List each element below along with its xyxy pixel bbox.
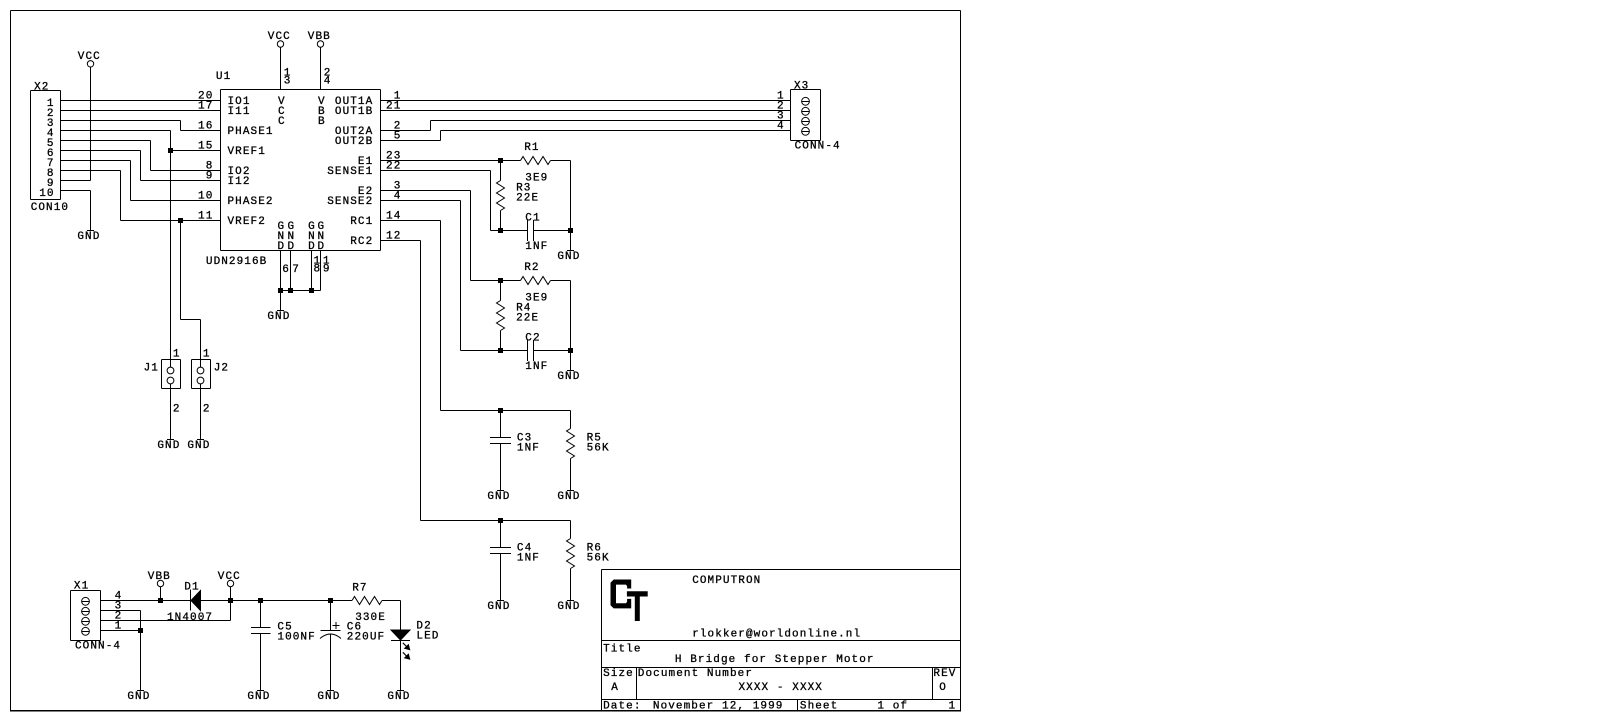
svg-text:VCC: VCC: [78, 51, 101, 63]
capacitor C3: [500, 411, 502, 438]
wire U1 OUT2B to X3.4: [381, 140, 441, 142]
svg-text:GND: GND: [557, 371, 580, 383]
svg-text:GND: GND: [557, 601, 580, 613]
connector X2 CON10: [31, 90, 61, 92]
resistor R2: [521, 277, 551, 285]
svg-text:9: 9: [323, 264, 331, 276]
svg-text:PHASE1: PHASE1: [228, 126, 274, 138]
svg-text:RC2: RC2: [350, 236, 373, 248]
wire X1.3 / X1.1 to GND: [101, 610, 141, 612]
resistor R3: [500, 161, 502, 181]
svg-text:17: 17: [198, 101, 213, 113]
wire U1 ground rail to GND: [280, 291, 282, 311]
svg-text:A: A: [611, 682, 619, 694]
svg-text:100NF: 100NF: [277, 632, 315, 644]
wire U1 RC2 down to C4/R6: [381, 240, 421, 242]
ground (C5): [257, 690, 264, 692]
svg-text:B: B: [318, 116, 326, 128]
svg-text:VCC: VCC: [218, 571, 241, 583]
node C5 junction: [258, 598, 263, 603]
svg-text:X2: X2: [34, 81, 49, 93]
svg-text:C: C: [278, 116, 286, 128]
wire D1 to VCC rail: [201, 600, 353, 602]
wire U1 E1 to R1: [381, 160, 521, 162]
node SENSE2 junction: [498, 348, 503, 353]
svg-text:22E: 22E: [516, 312, 539, 324]
svg-text:GND: GND: [267, 311, 290, 323]
wire to GND: [570, 351, 572, 371]
wire X2.10 to GND: [61, 190, 91, 192]
svg-text:1N4007: 1N4007: [167, 612, 213, 624]
svg-text:2: 2: [173, 404, 181, 416]
IC U1 UDN2916B body: [221, 89, 381, 91]
capacitor C4: [500, 521, 502, 548]
svg-text:15: 15: [198, 141, 213, 153]
svg-text:LED: LED: [416, 631, 439, 643]
svg-text:November 12, 1999: November 12, 1999: [653, 700, 784, 712]
node RC2 junction: [498, 518, 503, 523]
wire X1.4 VBB rail: [101, 600, 191, 602]
svg-text:2: 2: [203, 404, 211, 416]
ground (R6): [567, 600, 574, 602]
svg-text:VREF2: VREF2: [228, 216, 266, 228]
wire to GND: [570, 231, 572, 251]
wire D2 to GND: [400, 641, 402, 691]
svg-text:CON10: CON10: [31, 202, 69, 214]
ground (C3): [497, 490, 504, 492]
svg-text:11: 11: [198, 211, 213, 223]
border frame: [11, 10, 961, 12]
svg-text:GND: GND: [127, 691, 150, 703]
ground (below U1): [277, 310, 284, 312]
node C6 junction: [328, 598, 333, 603]
svg-text:COMPUTRON: COMPUTRON: [692, 575, 761, 587]
svg-text:1NF: 1NF: [525, 241, 548, 253]
svg-text:4: 4: [777, 121, 785, 133]
wire U1 OUT1B to X3.2: [381, 110, 791, 112]
jumper J2: [192, 359, 211, 361]
svg-text:56K: 56K: [587, 552, 610, 564]
node VCC junction: [228, 598, 233, 603]
ground (C6): [327, 690, 334, 692]
svg-text:I12: I12: [228, 176, 251, 188]
title block frame: [602, 569, 961, 571]
svg-text:SENSE1: SENSE1: [327, 166, 373, 178]
node C1 right junction: [568, 228, 573, 233]
svg-text:GND: GND: [157, 440, 180, 452]
wire U1 SENSE2 down: [381, 200, 461, 202]
svg-text:OUT2B: OUT2B: [335, 136, 373, 148]
wire X2.6 to U1 I12: [61, 150, 141, 152]
wire X2.1 to U1 IO1: [61, 100, 221, 102]
wire U1 E2 to R2: [381, 190, 471, 192]
svg-text:1: 1: [173, 349, 181, 361]
capacitor C6 (electrolytic): [330, 601, 332, 631]
svg-text:OUT1B: OUT1B: [335, 106, 373, 118]
svg-text:J1: J1: [144, 362, 159, 374]
ground (J2): [197, 439, 204, 441]
node X1 ground junction: [138, 628, 143, 633]
svg-text:UDN2916B: UDN2916B: [206, 256, 267, 268]
ground (R5): [567, 490, 574, 492]
wire U1 RC1 down to C3/R5: [381, 220, 441, 222]
svg-text:D: D: [288, 241, 296, 253]
wire R2 right to sense node: [551, 280, 571, 282]
resistor R4: [500, 281, 502, 301]
capacitor C2: [501, 350, 528, 352]
wire VCC to X2 pin 9: [90, 67, 92, 181]
svg-text:XXXX - XXXX: XXXX - XXXX: [739, 682, 824, 694]
node U1 ground rail junctions: [278, 288, 283, 293]
svg-text:10: 10: [198, 191, 213, 203]
svg-text:R2: R2: [524, 262, 539, 274]
resistor R7: [352, 597, 382, 605]
svg-text:GND: GND: [317, 691, 340, 703]
capacitor C5: [260, 601, 262, 628]
wire X2.3 to U1 PHASE1: [61, 120, 181, 122]
wire J1.2 to GND: [170, 384, 172, 440]
wire X1.2 to VCC node: [101, 620, 231, 622]
svg-text:Date:: Date:: [603, 700, 641, 712]
svg-text:Sheet: Sheet: [800, 700, 838, 712]
svg-text:1: 1: [203, 349, 211, 361]
node SENSE1 junction: [498, 228, 503, 233]
svg-text:J2: J2: [214, 362, 229, 374]
ground (R2/C2): [567, 370, 574, 372]
svg-text:16: 16: [198, 121, 213, 133]
node VREF1 junction: [168, 148, 173, 153]
wire U1 OUT2A to X3.3: [381, 130, 431, 132]
capacitor C1: [501, 230, 528, 232]
svg-text:GND: GND: [77, 231, 100, 243]
svg-text:1NF: 1NF: [517, 442, 540, 454]
svg-text:GND: GND: [487, 601, 510, 613]
svg-text:9: 9: [206, 171, 214, 183]
svg-text:220UF: 220UF: [347, 632, 385, 644]
svg-text:VBB: VBB: [148, 571, 171, 583]
ground (J1): [167, 439, 174, 441]
connector X1 CONN-4: [71, 590, 101, 592]
svg-text:1 of: 1 of: [877, 700, 908, 712]
node RC1 junction: [498, 408, 503, 413]
svg-text:GND: GND: [557, 251, 580, 263]
node C2 right junction: [568, 348, 573, 353]
LED D2: [391, 630, 410, 640]
svg-text:GND: GND: [487, 491, 510, 503]
connector X3 CONN-4: [791, 89, 821, 91]
wire X2.4 to U1 VREF1: [61, 130, 171, 132]
node VREF2 junction: [178, 218, 183, 223]
ground (D2): [397, 690, 404, 692]
svg-text:8: 8: [314, 264, 322, 276]
svg-text:Size: Size: [603, 668, 634, 680]
jumper J1: [162, 359, 181, 361]
node E2 junction: [498, 278, 503, 283]
svg-text:R7: R7: [352, 582, 367, 594]
svg-text:H Bridge for Stepper Motor: H Bridge for Stepper Motor: [675, 654, 875, 666]
svg-text:GND: GND: [247, 691, 270, 703]
wire J2.2 to GND: [200, 384, 202, 440]
svg-text:1NF: 1NF: [525, 361, 548, 373]
svg-text:7: 7: [292, 264, 300, 276]
svg-text:D: D: [278, 241, 286, 253]
svg-text:1: 1: [949, 700, 957, 712]
ground (R1/C1): [567, 250, 574, 252]
wire VREF1 node down to J1: [170, 151, 172, 368]
wire R7 to D2: [382, 600, 401, 602]
node E1 junction: [498, 158, 503, 163]
svg-text:3: 3: [284, 76, 292, 88]
svg-text:22E: 22E: [516, 192, 539, 204]
svg-text:rlokker@worldonline.nl: rlokker@worldonline.nl: [692, 629, 861, 641]
svg-text:C1: C1: [525, 212, 540, 224]
svg-text:10: 10: [39, 188, 54, 200]
svg-text:330E: 330E: [355, 612, 386, 624]
svg-text:SENSE2: SENSE2: [327, 196, 373, 208]
svg-text:Title: Title: [603, 643, 641, 655]
svg-text:X1: X1: [74, 580, 89, 592]
resistor R6: [570, 521, 572, 539]
wire X2.5 to U1 IO2: [61, 140, 151, 142]
U1 GND pins 6,7,18,19: [280, 251, 282, 291]
wire U1 SENSE1 down: [381, 170, 491, 172]
resistor R1: [521, 157, 551, 165]
svg-text:REV: REV: [933, 668, 956, 680]
wire VREF2 node down to J2: [180, 221, 182, 320]
svg-text:C2: C2: [525, 332, 540, 344]
wire U1 OUT1A to X3.1: [381, 100, 791, 102]
node VBB junction: [158, 598, 163, 603]
svg-text:PHASE2: PHASE2: [228, 196, 274, 208]
svg-text:X3: X3: [794, 80, 809, 92]
svg-text:6: 6: [282, 264, 290, 276]
svg-text:R1: R1: [524, 142, 539, 154]
svg-text:Document Number: Document Number: [638, 668, 753, 680]
COMPUTRON logo CT: [611, 580, 631, 608]
resistor R5: [570, 411, 572, 429]
wire X2.2 to U1 I11: [61, 110, 221, 112]
ground (X1): [137, 690, 144, 692]
ground (below X2): [87, 230, 94, 232]
svg-text:56K: 56K: [587, 442, 610, 454]
svg-text:CONN-4: CONN-4: [75, 641, 121, 653]
svg-text:RC1: RC1: [350, 216, 373, 228]
wire X2.8 to U1 VREF2: [61, 170, 121, 172]
svg-text:4: 4: [324, 76, 332, 88]
svg-text:U1: U1: [216, 71, 231, 83]
svg-text:VREF1: VREF1: [228, 146, 266, 158]
svg-text:CONN-4: CONN-4: [795, 141, 841, 153]
wire R1 right to sense node: [551, 160, 571, 162]
svg-text:D: D: [318, 241, 326, 253]
svg-text:GND: GND: [387, 691, 410, 703]
svg-text:I11: I11: [228, 106, 251, 118]
ground (C4): [497, 600, 504, 602]
diode D1 1N4007: [190, 590, 192, 611]
svg-text:D1: D1: [184, 581, 199, 593]
svg-text:GND: GND: [557, 491, 580, 503]
wire X2.7 to U1 PHASE2: [61, 160, 131, 162]
svg-text:GND: GND: [187, 440, 210, 452]
svg-text:1NF: 1NF: [517, 552, 540, 564]
svg-text:O: O: [939, 682, 947, 694]
